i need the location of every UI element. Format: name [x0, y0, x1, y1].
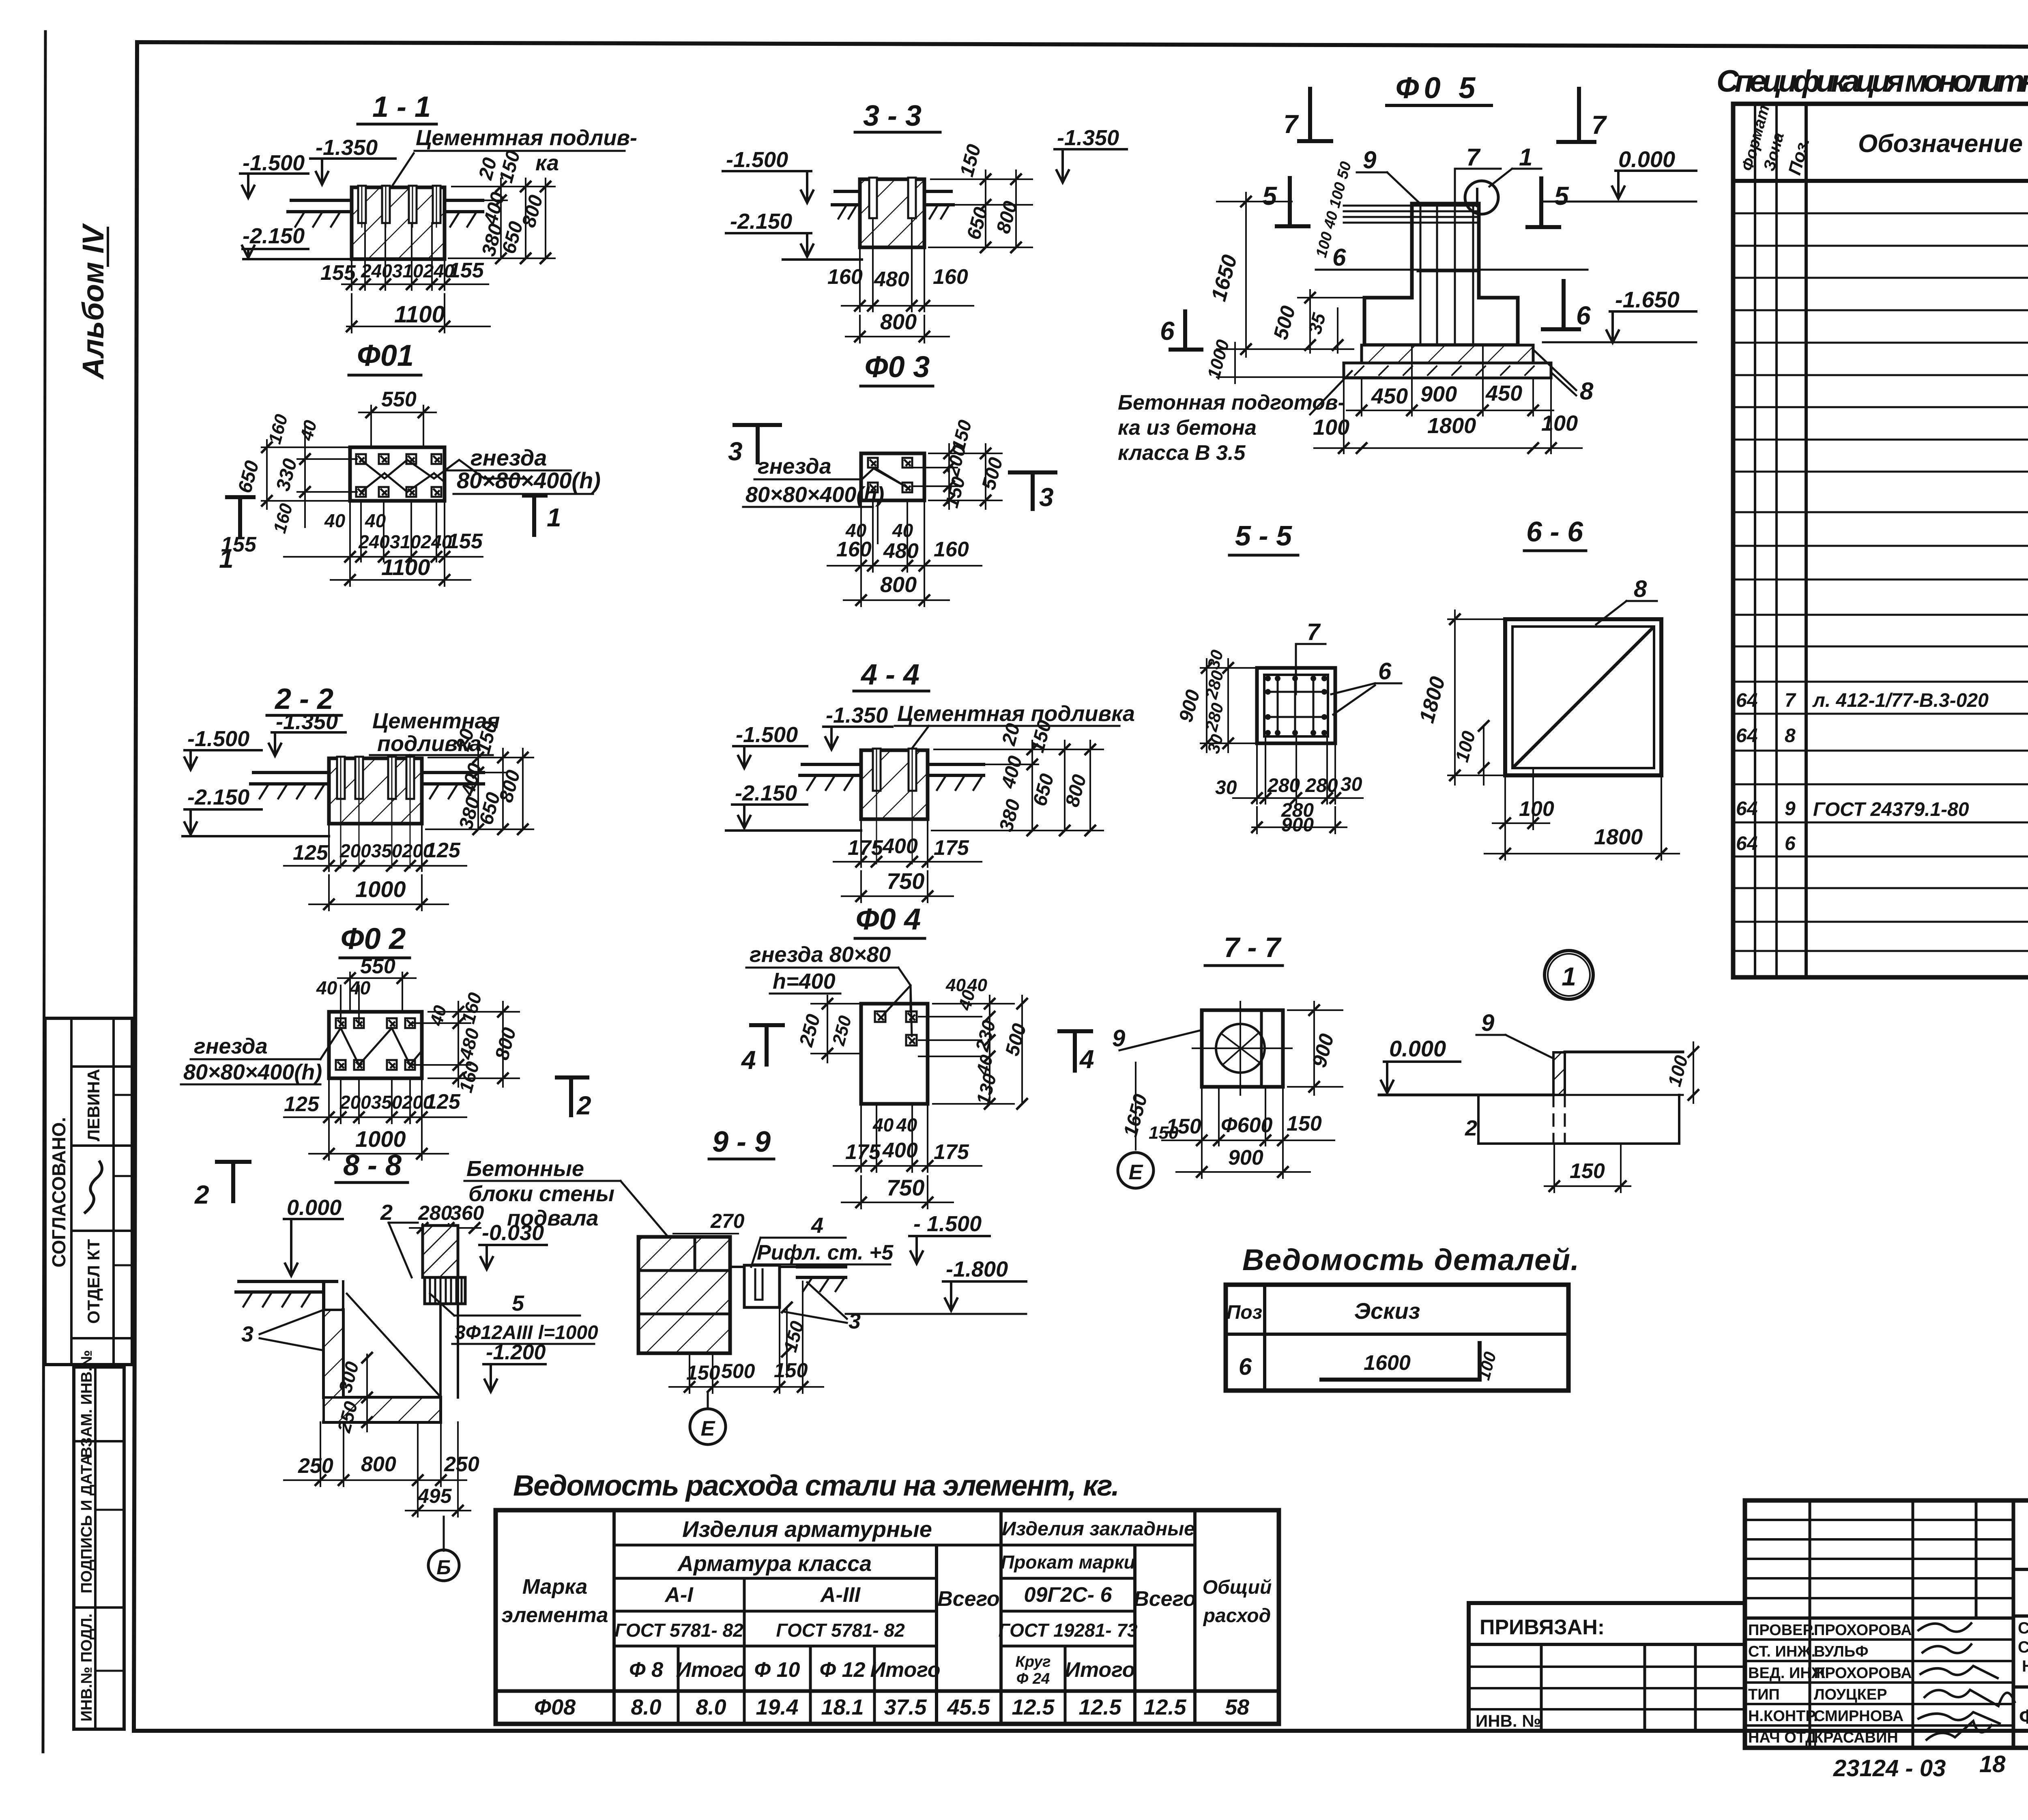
bolt sockets	[356, 454, 441, 497]
bottom dims 7-7	[1162, 1087, 1334, 1178]
svg-text:6 - 6: 6 - 6	[1526, 516, 1583, 547]
svg-text:-2.150: -2.150	[735, 781, 797, 805]
svg-text:-1.350: -1.350	[316, 135, 378, 160]
svg-text:1800: 1800	[1415, 674, 1450, 725]
section mark 4 right	[1059, 1031, 1091, 1071]
svg-text:3 - 3: 3 - 3	[863, 100, 922, 132]
bottom level line	[243, 258, 352, 260]
svg-text:750: 750	[887, 1175, 924, 1200]
svg-text:ПРОХОРОВА: ПРОХОРОВА	[1814, 1665, 1912, 1682]
bolt sockets	[336, 1018, 415, 1070]
svg-text:40: 40	[296, 418, 321, 443]
svg-text:1800: 1800	[1594, 825, 1643, 849]
right dims Ф02	[412, 1002, 519, 1087]
svg-text:8: 8	[1785, 725, 1796, 747]
svg-text:250: 250	[829, 1013, 856, 1048]
svg-text:5: 5	[1554, 181, 1569, 210]
svg-text:150: 150	[774, 1359, 808, 1382]
floor slab right	[797, 1267, 846, 1277]
dim 1000	[309, 875, 448, 910]
svg-text:Ф0 4: Ф0 4	[856, 902, 921, 936]
svg-text:Ф 24: Ф 24	[1016, 1670, 1050, 1687]
datum circle Е	[707, 1393, 709, 1409]
svg-text:ЛОУЦКЕР: ЛОУЦКЕР	[1814, 1686, 1887, 1703]
svg-text:280: 280	[418, 1202, 452, 1224]
spec header labels	[1738, 103, 2028, 177]
floor lines	[1379, 1094, 1553, 1097]
svg-text:Итого: Итого	[1065, 1658, 1135, 1682]
svg-text:240310240: 240310240	[361, 260, 455, 281]
svg-text:Н.КОНТР.: Н.КОНТР.	[1748, 1708, 1818, 1725]
right side dims	[449, 178, 555, 258]
svg-text:гнезда: гнезда	[758, 454, 831, 479]
svg-text:-1.650: -1.650	[1615, 287, 1680, 312]
svg-text:150: 150	[779, 1319, 808, 1354]
pedestal Ф05	[1364, 204, 1518, 345]
foundation block 3-3	[860, 179, 924, 247]
svg-text:6: 6	[1160, 316, 1175, 346]
dim 500 / 35	[1298, 290, 1364, 353]
bottom dims 100/1800/100	[1314, 378, 1582, 453]
svg-text:ка: ка	[535, 151, 559, 175]
svg-text:1: 1	[1562, 962, 1576, 991]
detail list table	[1226, 1285, 1568, 1391]
svg-text:Итого: Итого	[870, 1658, 941, 1682]
datum circle Е	[1118, 1153, 1154, 1188]
svg-text:18.1: 18.1	[821, 1695, 864, 1719]
svg-text:9 - 9: 9 - 9	[712, 1126, 771, 1158]
sheet outer left edge line	[43, 32, 45, 1752]
svg-text:8.0: 8.0	[696, 1695, 726, 1719]
svg-text:КРАСАВИН: КРАСАВИН	[1814, 1729, 1898, 1746]
svg-text:Ф0 2: Ф0 2	[341, 922, 406, 955]
svg-text:9: 9	[1785, 798, 1796, 820]
svg-text:125: 125	[284, 1092, 320, 1116]
svg-text:380: 380	[995, 797, 1025, 834]
svg-text:800: 800	[880, 310, 917, 334]
svg-text:6: 6	[1239, 1354, 1252, 1380]
dim 750	[842, 871, 953, 902]
rebar cage	[1344, 206, 1479, 343]
svg-text:1000: 1000	[355, 1126, 406, 1152]
section mark 2 left	[217, 1162, 249, 1201]
svg-text:СТОЧНЫХ ВОД ПРОИЗВОДИТЕЛЬ-: СТОЧНЫХ ВОД ПРОИЗВОДИТЕЛЬ-	[2018, 1638, 2028, 1656]
floor slab left	[288, 200, 352, 212]
svg-text:230: 230	[971, 1018, 999, 1054]
dim 1000 left	[1217, 376, 1381, 378]
steel table data row	[534, 1695, 1249, 1719]
svg-text:200350200: 200350200	[339, 840, 434, 861]
right side dims 2-2	[426, 749, 533, 829]
svg-text:ЛЕВИНА: ЛЕВИНА	[84, 1069, 103, 1142]
svg-text:Ф01: Ф01	[357, 339, 414, 372]
svg-text:3: 3	[1039, 483, 1054, 512]
svg-text:7: 7	[1785, 690, 1796, 711]
svg-text:-2.150: -2.150	[730, 209, 792, 234]
svg-text:8 - 8: 8 - 8	[343, 1149, 402, 1182]
left dims	[262, 422, 357, 527]
ground slab left	[236, 1281, 337, 1292]
svg-text:800: 800	[491, 1025, 520, 1062]
svg-text:125: 125	[425, 1090, 461, 1114]
dim 100 right	[1693, 1042, 1694, 1103]
svg-text:23124 - 03: 23124 - 03	[1833, 1755, 1946, 1781]
dim 495	[406, 1422, 470, 1517]
svg-text:Цементная подливка: Цементная подливка	[897, 702, 1135, 726]
svg-text:500: 500	[721, 1360, 755, 1382]
rebar lines	[1264, 675, 1328, 736]
svg-text:500: 500	[978, 455, 1007, 492]
project name text	[2018, 1618, 2028, 1675]
svg-text:160: 160	[827, 265, 863, 289]
svg-text:ПРОВЕР.: ПРОВЕР.	[1748, 1622, 1815, 1639]
striped anchor block	[425, 1277, 465, 1304]
svg-text:1: 1	[1519, 144, 1532, 171]
excavation slope line	[347, 1294, 439, 1395]
svg-text:блоки стены: блоки стены	[468, 1182, 614, 1206]
svg-text:12.5: 12.5	[1078, 1695, 1121, 1719]
svg-text:35: 35	[1304, 310, 1330, 336]
svg-text:19.4: 19.4	[756, 1695, 798, 1719]
floor slabs 4-4	[800, 764, 984, 775]
right side dims 4-4	[932, 740, 1103, 831]
svg-text:150: 150	[1287, 1112, 1322, 1135]
svg-text:900: 900	[1420, 382, 1457, 406]
svg-text:1000: 1000	[355, 876, 406, 902]
column above	[423, 1225, 458, 1277]
svg-text:480: 480	[883, 539, 919, 563]
plan rect	[329, 1012, 422, 1078]
svg-text:-0.030: -0.030	[482, 1221, 544, 1245]
svg-text:ТИП: ТИП	[1748, 1686, 1780, 1703]
foundation block hatched	[352, 187, 445, 259]
svg-text:-1.500: -1.500	[736, 723, 798, 747]
svg-text:175: 175	[848, 836, 883, 860]
floor slabs 2-2	[251, 773, 483, 784]
svg-text:8: 8	[1634, 576, 1647, 602]
svg-text:СОГЛАСОВАНО.: СОГЛАСОВАНО.	[48, 1117, 69, 1268]
svg-text:Цементная подлив-: Цементная подлив-	[416, 126, 637, 150]
svg-text:40: 40	[316, 977, 337, 998]
svg-text:550: 550	[360, 955, 395, 978]
svg-text:64: 64	[1736, 798, 1757, 820]
dim 1800 left	[1448, 610, 1505, 785]
svg-text:8.0: 8.0	[631, 1695, 661, 1719]
svg-text:Изделия закладные: Изделия закладные	[1002, 1518, 1195, 1540]
svg-text:ПОДПИСЬ И ДАТА: ПОДПИСЬ И ДАТА	[78, 1455, 95, 1593]
gnezda leader	[361, 460, 525, 479]
anchor pocket	[744, 1265, 780, 1307]
svg-text:НОСТЬЮ 200 м³/сутки: НОСТЬЮ 200 м³/сутки	[2022, 1657, 2028, 1675]
bottom dims 250/800/250	[284, 1422, 466, 1517]
svg-text:класса В 3.5: класса В 3.5	[1118, 441, 1246, 465]
svg-text:Б: Б	[436, 1556, 451, 1579]
dim 150 vertical	[786, 1307, 788, 1377]
svg-text:900: 900	[1228, 1146, 1263, 1170]
lean concrete slab	[1344, 363, 1551, 378]
title block frame	[1745, 1500, 2028, 1748]
svg-text:СМИРНОВА: СМИРНОВА	[1814, 1708, 1903, 1725]
svg-text:400: 400	[997, 753, 1027, 791]
section marks 3	[735, 425, 780, 462]
svg-text:л. 412-1/77-В.3-020: л. 412-1/77-В.3-020	[1812, 690, 1989, 711]
svg-text:250: 250	[298, 1454, 333, 1478]
bottom dims 155/240/310/240/155	[342, 223, 488, 290]
svg-text:7: 7	[1283, 109, 1299, 139]
svg-text:4 - 4: 4 - 4	[860, 659, 919, 691]
bottom dims 150/500/150	[669, 1281, 823, 1393]
svg-text:-1.800: -1.800	[946, 1257, 1008, 1281]
svg-text:800: 800	[880, 573, 917, 597]
svg-text:Ф600: Ф600	[1221, 1114, 1272, 1137]
svg-text:125: 125	[425, 839, 461, 862]
svg-text:Изделия арматурные: Изделия арматурные	[682, 1516, 932, 1542]
svg-text:9: 9	[1363, 146, 1377, 174]
svg-text:h=400: h=400	[773, 969, 836, 994]
svg-text:800: 800	[518, 193, 547, 230]
svg-text:12.5: 12.5	[1143, 1695, 1186, 1719]
svg-text:200350200: 200350200	[339, 1092, 434, 1113]
svg-text:ГОСТ 19281- 73: ГОСТ 19281- 73	[999, 1620, 1138, 1641]
bottom dims	[284, 501, 483, 586]
foundation slab	[1362, 345, 1533, 363]
column section square	[1257, 668, 1335, 743]
svg-text:ПРИВЯЗАН:: ПРИВЯЗАН:	[1480, 1616, 1605, 1639]
svg-text:400: 400	[457, 761, 486, 798]
svg-text:Е: Е	[1129, 1161, 1143, 1184]
svg-text:500: 500	[1001, 1021, 1031, 1058]
dim 150	[1545, 1144, 1631, 1192]
svg-text:Общий: Общий	[1203, 1577, 1272, 1598]
svg-text:-1.350: -1.350	[826, 703, 888, 728]
svg-text:125: 125	[293, 841, 329, 865]
svg-text:-1.200: -1.200	[486, 1341, 546, 1364]
svg-text:150: 150	[941, 474, 969, 510]
svg-text:30: 30	[1215, 777, 1237, 798]
svg-text:550: 550	[381, 388, 417, 411]
section mark 1 right	[524, 496, 546, 535]
bottom dims Ф02	[284, 1078, 466, 1160]
svg-text:Бетонные: Бетонные	[466, 1157, 584, 1181]
svg-text:4: 4	[811, 1213, 823, 1238]
svg-text:900: 900	[1281, 814, 1314, 836]
svg-text:64: 64	[1736, 690, 1757, 711]
svg-text:Ф 8: Ф 8	[629, 1658, 663, 1682]
floor slab right	[445, 200, 483, 212]
svg-text:7: 7	[1592, 110, 1607, 140]
svg-text:37.5: 37.5	[884, 1695, 927, 1719]
svg-text:160: 160	[265, 412, 292, 446]
svg-text:360: 360	[450, 1202, 484, 1224]
svg-text:800: 800	[1061, 772, 1091, 809]
steel table header texts	[501, 1516, 1272, 1687]
svg-text:450: 450	[1371, 384, 1408, 408]
album label "Альбом IV"	[76, 223, 110, 380]
section mark 5 right	[1527, 178, 1559, 227]
dim 1100	[347, 294, 490, 333]
bottom dims 6-6	[1484, 768, 1679, 860]
svg-text:270: 270	[710, 1210, 745, 1232]
svg-text:Ф 10: Ф 10	[754, 1658, 800, 1682]
svg-text:64: 64	[1736, 833, 1757, 854]
svg-text:3: 3	[241, 1322, 253, 1346]
svg-text:Ф0 3: Ф0 3	[865, 350, 930, 384]
svg-text:Ф 12: Ф 12	[820, 1658, 866, 1682]
svg-text:155: 155	[449, 259, 484, 282]
svg-text:45.5: 45.5	[947, 1695, 990, 1719]
svg-text:7: 7	[1307, 619, 1321, 645]
svg-text:250: 250	[795, 1012, 825, 1049]
margin table "Согласовано"	[45, 1018, 132, 1365]
svg-text:ВЗАМ. ИНВ.№: ВЗАМ. ИНВ.№	[78, 1350, 95, 1458]
svg-text:280: 280	[1201, 701, 1227, 734]
foundation block 4-4	[861, 750, 928, 819]
svg-text:Обозначение: Обозначение	[1858, 130, 2023, 158]
svg-text:4: 4	[1079, 1045, 1094, 1074]
section mark 1 left	[227, 497, 253, 537]
svg-text:155: 155	[221, 533, 257, 556]
svg-text:330: 330	[272, 456, 301, 493]
svg-text:гнезда: гнезда	[194, 1034, 268, 1058]
svg-text:-1.500: -1.500	[187, 727, 249, 751]
svg-text:175: 175	[934, 1140, 969, 1164]
section mark 4 left	[751, 1025, 783, 1065]
svg-text:40: 40	[349, 977, 371, 998]
svg-text:2: 2	[576, 1091, 591, 1120]
svg-text:40: 40	[426, 1003, 451, 1028]
svg-text:3: 3	[728, 437, 743, 466]
svg-text:160: 160	[933, 265, 968, 289]
svg-text:500: 500	[1269, 303, 1300, 342]
plan rect	[861, 1004, 928, 1104]
floor slabs 3-3	[832, 191, 953, 205]
right dims Ф03	[913, 444, 1002, 509]
svg-text:280 280: 280 280	[1267, 775, 1338, 796]
svg-text:Итого: Итого	[676, 1658, 746, 1682]
svg-text:1100: 1100	[394, 301, 445, 328]
svg-text:40: 40	[365, 510, 386, 531]
svg-text:Марка: Марка	[522, 1575, 588, 1599]
right part rows	[2013, 1568, 2028, 1571]
margin signature	[85, 1162, 102, 1213]
svg-text:150: 150	[495, 148, 524, 185]
section mark 7 right	[1558, 89, 1594, 142]
svg-text:6: 6	[1332, 244, 1346, 271]
svg-text:СТАНЦИЯ БИОЛОГИЧЕСКОЙ ОЧИСТКИ: СТАНЦИЯ БИОЛОГИЧЕСКОЙ ОЧИСТКИ	[2018, 1618, 2028, 1637]
svg-text:2: 2	[194, 1180, 209, 1209]
svg-text:2: 2	[1465, 1116, 1477, 1140]
svg-text:240310240: 240310240	[358, 531, 452, 552]
callout circle 1	[1545, 951, 1593, 999]
right dims 3-3	[929, 170, 1032, 247]
svg-text:40: 40	[896, 1114, 917, 1135]
steel table grid	[496, 1510, 1279, 1724]
svg-text:0.000: 0.000	[1389, 1036, 1446, 1061]
svg-text:160: 160	[270, 501, 296, 535]
svg-text:450: 450	[1485, 381, 1522, 406]
svg-text:80×80×400(h): 80×80×400(h)	[745, 483, 884, 507]
svg-text:4: 4	[741, 1045, 756, 1075]
svg-text:150: 150	[1149, 1123, 1179, 1143]
svg-text:5 - 5: 5 - 5	[1235, 520, 1292, 552]
anchor slots	[358, 186, 440, 223]
svg-text:ка из бетона: ка из бетона	[1118, 416, 1257, 440]
svg-text:160: 160	[836, 538, 872, 561]
svg-text:Ведомость расхода стали на эле: Ведомость расхода стали на элемент, кг.	[513, 1470, 1119, 1502]
svg-text:Поз.: Поз.	[1785, 135, 1813, 177]
svg-text:Ф0 5: Ф0 5	[1396, 71, 1480, 105]
svg-text:ОТДЕЛ КТ: ОТДЕЛ КТ	[84, 1239, 103, 1324]
dim 800	[846, 315, 949, 343]
svg-text:175: 175	[934, 836, 969, 860]
svg-text:650: 650	[963, 205, 992, 242]
svg-text:5: 5	[512, 1291, 524, 1316]
svg-text:480: 480	[874, 268, 909, 291]
svg-text:Круг: Круг	[1015, 1653, 1051, 1670]
svg-text:280: 280	[1201, 668, 1227, 701]
svg-text:160: 160	[934, 538, 969, 561]
svg-text:400: 400	[882, 1139, 918, 1162]
left dims 300 250	[366, 1354, 368, 1432]
svg-text:400: 400	[480, 190, 509, 227]
svg-text:750: 750	[887, 868, 924, 894]
svg-text:7: 7	[1466, 144, 1481, 171]
svg-text:ГОСТ 5781- 82: ГОСТ 5781- 82	[776, 1620, 905, 1641]
svg-text:элемента: элемента	[501, 1603, 608, 1627]
spec table grid	[1733, 104, 2028, 977]
svg-text:СТ. ИНЖ.: СТ. ИНЖ.	[1748, 1643, 1815, 1660]
svg-text:1000: 1000	[1204, 337, 1233, 381]
svg-text:155: 155	[447, 530, 483, 553]
svg-text:12.5: 12.5	[1012, 1695, 1055, 1719]
svg-text:Спецификация монолитных фундам: Спецификация монолитных фундаментов под …	[1716, 64, 2028, 99]
embedded plate	[1553, 1052, 1565, 1095]
svg-text:100: 100	[1663, 1053, 1692, 1089]
svg-text:800: 800	[361, 1453, 396, 1476]
svg-text:100: 100	[1313, 415, 1349, 440]
svg-text:Е: Е	[701, 1417, 715, 1440]
bottom dims 160/480/160	[842, 219, 973, 311]
plan rect	[350, 447, 445, 501]
svg-text:250: 250	[444, 1453, 479, 1476]
svg-text:150: 150	[1570, 1159, 1605, 1183]
svg-text:900: 900	[1308, 1031, 1338, 1070]
svg-text:ГОСТ 5781- 82: ГОСТ 5781- 82	[614, 1620, 743, 1641]
svg-text:расход: расход	[1203, 1605, 1271, 1627]
dim 1650	[1217, 193, 1353, 357]
wall blocks hatched	[638, 1237, 730, 1353]
svg-text:-1.500: -1.500	[243, 151, 305, 175]
svg-text:1100: 1100	[381, 554, 430, 580]
svg-text:100: 100	[1519, 797, 1554, 821]
left sub-table	[1809, 1500, 1811, 1748]
pit outline	[1478, 1095, 1679, 1144]
svg-text:Поз: Поз	[1227, 1302, 1262, 1323]
svg-text:650: 650	[234, 458, 263, 495]
svg-text:Ведомость деталей.: Ведомость деталей.	[1242, 1243, 1579, 1277]
diagonal	[1514, 628, 1652, 766]
anchor plate square	[1202, 1010, 1283, 1087]
svg-text:-1.350: -1.350	[276, 710, 338, 734]
svg-text:Альбом IV: Альбом IV	[76, 223, 110, 380]
svg-text:64: 64	[1736, 725, 1757, 747]
svg-text:Прокат марки: Прокат марки	[1001, 1552, 1135, 1573]
svg-text:160: 160	[457, 990, 486, 1026]
svg-text:НАЧ ОТД: НАЧ ОТД	[1748, 1729, 1816, 1746]
svg-text:400: 400	[882, 835, 918, 858]
left dims 250	[811, 996, 861, 1062]
svg-text:1800: 1800	[1427, 414, 1476, 438]
